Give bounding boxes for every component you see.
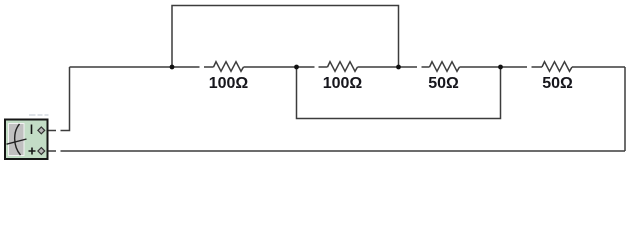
- negative terminal pin symbol (vertical bar): [31, 125, 33, 135]
- wire: segment from R4 to right edge: [572, 66, 625, 68]
- multimeter gauge arc: [15, 124, 21, 155]
- svg-text:50Ω: 50Ω: [542, 75, 573, 92]
- node A junction dot (top loop left): [170, 65, 175, 70]
- node C junction dot (top loop right): [396, 65, 401, 70]
- multimeter gauge needle: [7, 139, 27, 144]
- resistor R3 zigzag: [430, 62, 460, 72]
- wire: left branch from main net down toward multimeter negative terminal: [61, 67, 70, 131]
- node B junction dot (between R1 and R2): [294, 65, 299, 70]
- svg-text:50Ω: 50Ω: [428, 75, 459, 92]
- multimeter XMM body: [5, 120, 48, 160]
- wire: right branch down: [624, 67, 626, 151]
- svg-text:100Ω: 100Ω: [209, 75, 249, 92]
- wire: stub from multimeter negative terminal: [46, 130, 57, 132]
- wire: segment between R2 and R3 through node C: [358, 66, 430, 68]
- wire: segment between R3 and R4 through node D: [460, 66, 543, 68]
- wire: top parallel loop across R1 and R2: [172, 6, 399, 68]
- positive terminal pin symbol (plus): [29, 148, 36, 155]
- multimeter display panel: [9, 124, 25, 156]
- node D junction dot (between R3 and R4): [498, 65, 503, 70]
- wire: inner bottom loop across R2 and R3: [297, 67, 501, 119]
- wire: segment between R1 and R2 through node B: [244, 66, 328, 68]
- positive terminal pin diamond: [38, 148, 45, 155]
- resistor R4 zigzag: [542, 62, 572, 72]
- resistor R2 zigzag: [328, 62, 358, 72]
- svg-text:100Ω: 100Ω: [323, 75, 363, 92]
- resistor R1 zigzag: [214, 62, 244, 72]
- faint instrument reference label above multimeter: [29, 114, 49, 116]
- wire: main horizontal net, left segment to R1: [70, 66, 214, 68]
- wire: bottom return to multimeter positive terminal: [46, 150, 626, 152]
- negative terminal pin diamond: [38, 127, 45, 134]
